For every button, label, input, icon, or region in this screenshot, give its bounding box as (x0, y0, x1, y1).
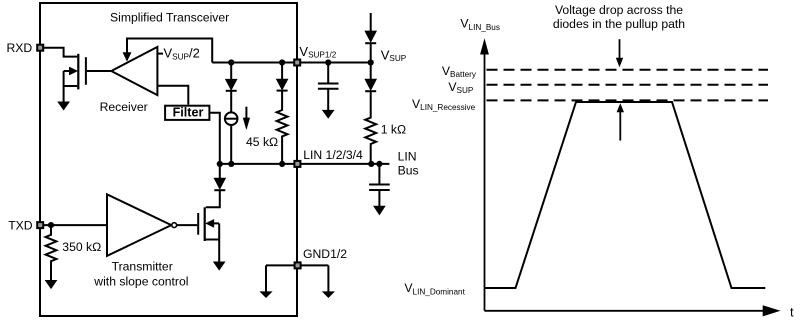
wire VSUP branch top (370, 13, 372, 31)
ground right (323, 292, 334, 297)
down arrowhead (616, 58, 623, 68)
wire RXD pad to M1 drain (44, 48, 77, 57)
up arrowhead (617, 103, 624, 112)
wire M1 bulk/source (64, 71, 78, 102)
pad VSUP1/2 (294, 60, 300, 66)
dashed line V_SUP (487, 84, 769, 86)
svg-text:350 kΩ: 350 kΩ (62, 240, 101, 254)
diode D2 (45k branch) (281, 63, 283, 80)
transistor M1 channel (77, 54, 79, 90)
ground M2 (214, 262, 225, 270)
wire receiver feedback (127, 39, 212, 63)
wire bubble to M2 gate (177, 224, 198, 226)
svg-text:Transmitter: Transmitter (112, 259, 173, 273)
svg-text:Receiver: Receiver (100, 100, 148, 114)
junction dots (48, 59, 383, 228)
wire filter output down to LIN node (210, 113, 219, 164)
svg-text:Simplified Transceiver: Simplified Transceiver (110, 11, 229, 25)
wire TXD input (44, 224, 107, 226)
svg-text:t: t (790, 305, 794, 320)
wire M1 gate to receiver apex (87, 70, 111, 72)
transistor M2 gate (197, 213, 199, 235)
transistor M1 bulk arrow (69, 67, 77, 75)
dashed line V_Battery (487, 69, 769, 71)
diode D3 above transmitter FET (219, 164, 221, 178)
diode D1 (current source branch) (230, 63, 232, 80)
wire receiver output to filter (157, 86, 188, 105)
wire M2 bulk/source (205, 223, 220, 262)
svg-text:VSUP: VSUP (381, 48, 407, 64)
svg-text:VSUP: VSUP (448, 80, 474, 95)
svg-text:diodes in the pullup path: diodes in the pullup path (553, 17, 685, 31)
svg-text:with slope control: with slope control (93, 275, 188, 289)
y axis arrowhead (480, 38, 489, 54)
x axis (485, 310, 765, 312)
op-amp U1 receiver triangle (111, 47, 157, 95)
transistor M2 bulk arrow (206, 219, 214, 227)
pad TXD (37, 222, 43, 228)
pad LIN (294, 161, 300, 167)
wire LIN internal (220, 163, 297, 165)
svg-text:Voltage drop across the: Voltage drop across the (555, 3, 683, 17)
ground M1 (58, 102, 69, 110)
pads (37, 45, 300, 269)
transistor M1 gate (85, 57, 87, 85)
ground left (261, 292, 272, 297)
waveform (485, 102, 766, 288)
annotation down arrow (619, 39, 621, 58)
ground R2 (46, 281, 57, 289)
capacitor C1 (318, 63, 339, 111)
ground C2 (374, 206, 385, 214)
resistor R3 1k (365, 91, 376, 164)
pad GND1/2 (295, 262, 301, 268)
svg-text:VBattery: VBattery (442, 64, 477, 79)
svg-text:GND1/2: GND1/2 (303, 247, 347, 261)
current source arrow (245, 107, 247, 119)
wire GND1/2 branches (266, 265, 328, 292)
diode D5 (370, 63, 372, 80)
svg-text:Bus: Bus (398, 163, 419, 177)
svg-text:VLIN_Bus: VLIN_Bus (460, 16, 500, 32)
x axis arrowhead (763, 305, 781, 316)
svg-text:LIN: LIN (398, 150, 417, 164)
filter box F1 (165, 106, 209, 120)
wire receiver vsup/2 stub (157, 53, 163, 55)
wire LIN bus external (297, 163, 389, 165)
svg-text:45 kΩ: 45 kΩ (246, 135, 278, 149)
op-amp U2 transmitter triangle (107, 194, 171, 256)
svg-text:VLIN_Dominant: VLIN_Dominant (404, 281, 465, 297)
svg-text:VLIN_Recessive: VLIN_Recessive (412, 97, 476, 112)
wire VSUP1/2 rail (212, 62, 371, 64)
ground C1 (323, 110, 334, 118)
diode D4 (365, 31, 376, 42)
transistor M2 channel (204, 207, 206, 241)
wire D3 to M2 drain (206, 190, 220, 207)
inverter bubble (172, 223, 177, 228)
svg-text:Filter: Filter (173, 106, 204, 120)
svg-text:VSUP1/2: VSUP1/2 (299, 44, 336, 60)
svg-text:LIN 1/2/3/4: LIN 1/2/3/4 (303, 148, 363, 162)
pad RXD (37, 45, 43, 51)
dashed line V_LIN_Recessive (487, 99, 769, 101)
resistor R1 45k (277, 91, 288, 164)
current source I1 (230, 91, 232, 113)
transceiver box (40, 3, 297, 316)
annotation up arrow (619, 112, 621, 141)
y axis (484, 53, 486, 311)
resistor R2 350k (46, 225, 57, 280)
arrow into receiver top (123, 53, 131, 62)
svg-text:1 kΩ: 1 kΩ (381, 123, 406, 137)
capacitor C2 LIN bus (369, 164, 390, 206)
svg-text:TXD: TXD (8, 219, 33, 233)
svg-text:RXD: RXD (7, 41, 33, 55)
